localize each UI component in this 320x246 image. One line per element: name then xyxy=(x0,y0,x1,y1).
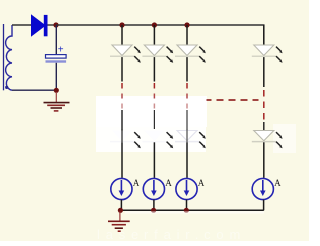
junction dot rail branch1 xyxy=(118,208,123,213)
wire branch1 lower-mid xyxy=(121,110,123,131)
wire branch4 upper xyxy=(263,25,265,46)
junction dot branch3 top xyxy=(184,22,189,27)
wire current source I2 to bottom rail xyxy=(153,200,155,211)
wire current source I1 to bottom rail xyxy=(120,200,122,211)
svg-text:A: A xyxy=(165,178,172,188)
LED D3 (branch2 row1) xyxy=(142,45,173,63)
wire branch1 through faded LED xyxy=(121,129,123,142)
dashed wire horizontal (omitted branches) xyxy=(207,99,259,101)
dashed wire branch1 (omitted series LEDs) xyxy=(121,83,123,109)
node A (junction at diode output) xyxy=(53,22,58,27)
watermark white patch (lower) xyxy=(96,127,206,152)
junction dot branch1 top xyxy=(119,22,124,27)
LED D8 (branch3 row2) xyxy=(175,131,206,149)
current source I3 xyxy=(176,178,205,200)
jpeg halo under bottom rail xyxy=(125,211,264,213)
dashed wire branch3 (omitted series LEDs) xyxy=(186,83,188,109)
current source I4 xyxy=(252,178,281,200)
junction dot branch2 top xyxy=(152,22,157,27)
wire branch3 to current source xyxy=(186,142,188,178)
wire current source I3 to bottom rail xyxy=(186,200,188,211)
wire branch4 mid xyxy=(263,57,265,87)
svg-text:A: A xyxy=(198,178,205,188)
wire branch2 mid xyxy=(153,57,155,81)
wire branch3 mid xyxy=(186,57,188,81)
diode D1 xyxy=(32,15,48,36)
wire branch2 lower-mid xyxy=(153,110,155,129)
watermark white patch (right) xyxy=(273,124,296,153)
wire branch2 upper xyxy=(153,25,155,46)
wire branch4 to current source xyxy=(263,142,265,178)
wire: top rail xyxy=(56,25,264,46)
current source I1 xyxy=(111,178,140,200)
wire branch2 to current source xyxy=(153,142,155,178)
wire branch4 lower-mid xyxy=(263,122,265,131)
node B (junction at capacitor bottom) xyxy=(54,88,59,93)
wire branch1 upper xyxy=(121,25,123,46)
wire: capacitor to node B xyxy=(55,63,57,90)
bottom rail wire xyxy=(120,209,263,211)
svg-text:+: + xyxy=(58,45,64,56)
LED D4 (branch3 row1) xyxy=(175,45,206,63)
ground (input side) xyxy=(44,92,70,111)
wire: node A down to capacitor xyxy=(55,25,57,55)
wire branch3 lower-mid xyxy=(186,110,188,131)
LED D7 (branch2 row2) xyxy=(142,131,173,149)
svg-text:laserfair.com: laserfair.com xyxy=(97,227,246,241)
wire branch3 upper xyxy=(186,25,188,46)
wire branch3 through faded LED xyxy=(186,129,188,142)
junction dot rail branch2 xyxy=(151,208,156,213)
capacitor C1 xyxy=(46,45,67,63)
LED D9 (branch4 row2) xyxy=(252,131,283,149)
wire branch1 to current source xyxy=(121,142,123,178)
current source I2 xyxy=(143,178,172,200)
LED D5 (branch4 row1) xyxy=(252,45,283,63)
phase dot xyxy=(5,86,8,89)
junction dot rail branch3 xyxy=(184,208,189,213)
wire current source I4 to bottom rail xyxy=(263,200,265,211)
svg-text:A: A xyxy=(133,178,140,188)
dashed wire branch2 (omitted series LEDs) xyxy=(153,83,155,109)
LED D2 (branch1 row1) xyxy=(110,45,141,63)
inductor L1 (winding) xyxy=(6,25,12,90)
wire: inductor top to diode xyxy=(12,24,33,26)
wire: diode to node A xyxy=(48,24,57,26)
dashed wire branch4 (omitted series LEDs) xyxy=(263,90,265,120)
wire branch1 mid xyxy=(121,57,123,81)
LED D6 (branch1 row2) xyxy=(110,131,141,149)
ground (output rail) xyxy=(108,212,130,232)
svg-text:A: A xyxy=(274,178,281,188)
transformer core line xyxy=(3,24,5,90)
wire: inductor bottom to node B xyxy=(12,89,56,91)
watermark white patch (main) xyxy=(96,96,207,127)
